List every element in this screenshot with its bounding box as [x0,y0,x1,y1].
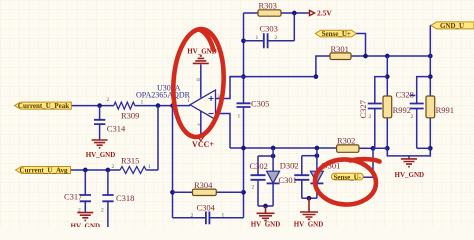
svg-text:HV_GND: HV_GND [71,223,101,228]
junction R992 column top [385,54,390,59]
svg-text:4: 4 [197,123,203,126]
junction R992 branch [385,74,390,79]
wire: Sense_U+ drop [356,34,365,57]
svg-text:HV_GND: HV_GND [294,221,324,227]
wire: op-amp top power pin [200,64,202,97]
wire: bottom right staggered rail [373,148,430,156]
port Sense_U+ [315,30,356,38]
svg-text:1: 1 [238,114,241,120]
junction R991 column bottom [428,146,433,151]
wire: node X vertical [243,13,245,148]
wire: clamp2 bottom tie [302,197,317,199]
svg-text:HV_GND: HV_GND [86,151,116,159]
svg-text:2: 2 [411,114,414,120]
junction clamp2 tie [315,153,320,158]
junction R992 column bottom [385,146,390,151]
ground HV_GND (right rail) [395,156,425,179]
svg-text:C303: C303 [260,24,278,34]
junction rail D302 [271,146,276,151]
wire: output feedback vertical [173,106,244,218]
junction node out2 (feedback branch) [170,103,175,108]
svg-text:Current_U_Peak: Current_U_Peak [18,102,69,110]
svg-text:R301: R301 [331,44,349,54]
svg-text:R309: R309 [121,111,139,121]
wire: stub row to + input [230,76,316,78]
port GND_U [430,22,474,30]
wire: R301 row [316,56,430,77]
wire: clamp1 bottom tie [258,205,273,207]
svg-text:C302: C302 [250,161,268,171]
capacitor C302 [250,156,268,206]
svg-text:2: 2 [107,97,110,103]
capacitor C301 [279,156,310,199]
svg-text:1: 1 [222,212,225,218]
svg-text:C328: C328 [396,90,414,100]
op-amp U301A [136,83,216,119]
svg-text:D302: D302 [280,160,299,170]
svg-text:2: 2 [101,208,104,214]
junction clamp1 tie [271,154,276,159]
junction node C (C318 tap) [106,168,111,173]
svg-text:2: 2 [293,163,296,169]
ground HV_GND (clamp1) [251,206,281,229]
annotation red ellipse 2 (Sense_U-) [314,158,380,206]
svg-text:Sense_U+: Sense_U+ [322,30,351,38]
diode D302 [267,148,299,206]
wire: clamp2 top tie [302,155,317,157]
svg-text:R992: R992 [393,105,411,115]
port Current_U_Peak [15,102,72,110]
svg-text:C305: C305 [251,98,269,108]
ground HV_GND (above op-amp, flipped) [187,48,217,64]
ground HV_GND (under C317) [71,213,101,231]
wire: Current_U_Peak row [71,105,190,107]
svg-text:1: 1 [141,100,144,106]
junction GND_U column top [428,54,433,59]
svg-text:2: 2 [252,184,255,190]
resistor R315 [120,167,146,174]
svg-text:C317: C317 [64,191,82,201]
svg-text:Current_U_Avg: Current_U_Avg [20,167,68,175]
wire: + input to node X [216,77,244,99]
wire: R304 row [173,191,244,193]
capacitor C328 [396,77,431,149]
diode D301 [310,148,340,198]
port Sense_U- [331,173,363,181]
svg-text:GND_U: GND_U [440,22,464,30]
junction stub corner [314,74,319,79]
annotation red ellipse 1 (HV_GND + op-amp) [170,28,226,139]
junction R304 left [170,190,175,195]
svg-text:C327: C327 [358,100,368,118]
junction node B (C317 tap) [83,168,88,173]
svg-text:C304: C304 [197,202,216,212]
svg-text:2: 2 [275,35,278,41]
ground HV_GND (under C314) [86,140,116,159]
wire: R992 column [386,56,388,156]
resistor R309 [114,102,135,109]
wire: clamp1 top tie [258,155,273,157]
wire: C304 row [173,217,244,219]
svg-text:R302: R302 [337,136,355,146]
svg-text:Sense_U-: Sense_U- [333,173,361,181]
wire: R303 top row [244,12,310,14]
wire: C303 row [244,13,295,41]
svg-text:C301: C301 [279,175,297,185]
junction node A (C314 tap) [97,103,102,108]
svg-text:R315: R315 [121,156,139,166]
capacitor C317 [64,170,91,212]
junction clamp1 ground [263,204,268,209]
resistor R303 [258,1,281,17]
svg-text:HV_GND: HV_GND [251,221,281,227]
junction rail D301 [315,146,320,151]
junction node X stub [241,74,246,79]
svg-text:2.5V: 2.5V [317,8,332,17]
capacitor C303 [260,24,278,49]
junction sense (4-way) [371,146,376,151]
junction node X at C303 row [241,38,246,43]
svg-text:1: 1 [148,164,151,170]
svg-text:R303: R303 [259,1,277,11]
junction rail at node X drop [241,146,246,151]
junction 2.5V tap [292,11,297,16]
capacitor C327 [358,77,387,149]
wire: Current_U_Avg row [71,106,159,170]
junction R304 right [241,190,246,195]
wire: minus-input rail [230,147,337,149]
svg-text:2: 2 [191,213,194,219]
svg-text:VCC+: VCC+ [192,140,214,149]
capacitor C318 [102,170,134,227]
power 2.5V [310,8,333,17]
resistor R301 [330,44,351,60]
svg-text:2: 2 [112,164,115,170]
svg-text:OPA2365AQDR: OPA2365AQDR [136,91,191,100]
resistor R302 [337,136,359,153]
svg-text:C318: C318 [116,193,134,203]
resistor R304 [193,180,217,196]
svg-text:2: 2 [369,114,372,120]
junction clamp2 ground [307,196,312,201]
svg-text:R991: R991 [436,105,454,115]
svg-text:C314: C314 [107,124,126,134]
junction node out1 (R315 branch) [156,103,161,108]
svg-text:1: 1 [187,98,190,104]
wire: R302 right to sense junction [359,147,373,149]
junction R991 column branch [428,74,433,79]
port Current_U_Avg [16,167,71,175]
svg-text:HV_GND: HV_GND [395,171,425,179]
power VCC+ [192,136,214,149]
svg-text:R304: R304 [194,180,213,190]
wire: op-amp bottom power pin [200,111,202,136]
resistor R992 [383,96,411,118]
resistor R991 [426,96,454,118]
capacitor C314 [94,106,126,140]
wire: C328 bottom tie [417,147,431,149]
ground HV_GND (clamp2) [294,198,324,228]
capacitor C304 [197,202,216,224]
svg-text:1: 1 [256,35,259,41]
wire: - input down to rail [216,114,231,149]
wire: GND_U / R991 column [429,25,431,156]
wire: Sense_U- drop [363,148,373,177]
capacitor C305 [237,98,270,108]
junction Sense_U+ tap [363,54,368,59]
